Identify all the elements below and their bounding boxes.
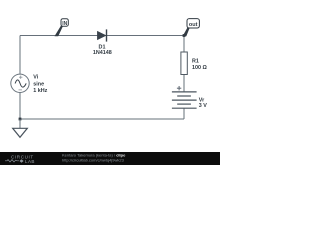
svg-text:1 kHz: 1 kHz	[33, 88, 47, 94]
ground	[13, 119, 28, 137]
svg-text:Vi: Vi	[33, 75, 38, 81]
value label sine	[33, 81, 44, 87]
value label 1 kHz	[33, 88, 47, 94]
label R1	[192, 58, 199, 64]
wire: left vertical from top rail to source Vi top	[19, 36, 21, 75]
label Vr	[199, 98, 205, 104]
label Vi	[33, 75, 38, 81]
battery plus sign	[177, 86, 181, 90]
node: out junction	[183, 34, 186, 37]
svg-text:IN: IN	[62, 21, 67, 27]
watermark bar	[0, 152, 220, 165]
svg-text:LAB: LAB	[25, 159, 35, 164]
svg-text:100 Ω: 100 Ω	[192, 65, 207, 71]
wire: source Vi bottom to ground junction	[19, 93, 21, 120]
flag IN	[55, 19, 69, 37]
svg-text:3 V: 3 V	[199, 103, 207, 109]
svg-text:R1: R1	[192, 58, 199, 64]
wire: battery Vr bottom stub to bottom rail	[183, 108, 185, 119]
source minus sign	[19, 89, 23, 91]
svg-text:1N4148: 1N4148	[93, 50, 112, 56]
value label 3 V	[199, 103, 207, 109]
svg-text:sine: sine	[33, 81, 44, 87]
flag out	[183, 19, 200, 37]
battery Vr symbol	[172, 92, 197, 108]
wire: bottom rail from ground junction to battery bottom	[20, 118, 184, 120]
voltage source Vi symbol	[11, 74, 29, 92]
wire: out node down to resistor R1 top	[183, 36, 185, 53]
node: ground junction	[19, 118, 22, 121]
wire: top rail from source corner to out node	[20, 35, 184, 37]
svg-text:out: out	[189, 22, 198, 28]
label D1	[99, 45, 106, 51]
diode D1 symbol	[97, 29, 106, 41]
value label 1N4148	[93, 50, 112, 56]
wire: resistor R1 bottom to battery Vr top	[183, 75, 185, 93]
svg-text:http://circuitlab.com/c/nwtq4j: http://circuitlab.com/c/nwtq4j9wk23	[62, 157, 125, 162]
value label 100 Ohm	[192, 65, 207, 71]
source plus sign	[19, 76, 22, 79]
resistor R1 symbol	[181, 52, 187, 75]
